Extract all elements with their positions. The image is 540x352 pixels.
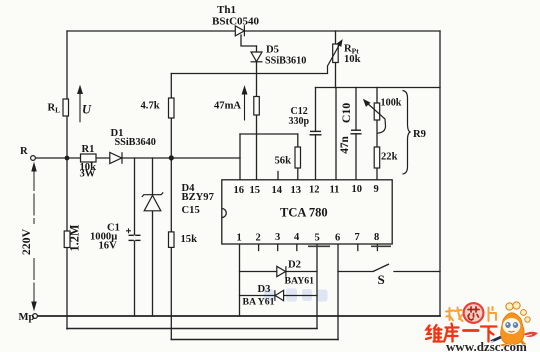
watermark zhao char (446, 308, 463, 322)
wire thyristor gate (241, 35, 257, 46)
svg-text:U: U (82, 103, 92, 117)
svg-text:SSiB3610: SSiB3610 (265, 56, 306, 67)
wire right rail (439, 31, 441, 316)
diode D5 (251, 52, 263, 62)
resistor 15k (169, 232, 175, 248)
svg-text:BA Y61: BA Y61 (243, 297, 275, 308)
svg-text:Th1: Th1 (217, 4, 236, 16)
wire pin11 column (335, 88, 337, 181)
svg-text:12: 12 (309, 185, 320, 196)
wire 4.7k column (170, 74, 172, 340)
brace R9 (403, 91, 411, 175)
resistor 1.2M (64, 231, 70, 248)
watermark ghost blue mark (264, 289, 328, 302)
wire row y73 (171, 73, 327, 75)
svg-text:15k: 15k (181, 234, 198, 245)
wire D2 row (240, 271, 318, 273)
svg-text:R1: R1 (82, 144, 95, 155)
svg-text:3: 3 (275, 232, 280, 243)
svg-text:R9: R9 (413, 129, 426, 140)
watermark weiku chars (426, 324, 497, 342)
wire pin4 stub (296, 244, 298, 251)
terminal R (31, 156, 36, 161)
wire pin6 column (337, 244, 339, 340)
svg-text:4.7k: 4.7k (141, 101, 160, 112)
diode D1 (110, 152, 122, 164)
svg-text:4: 4 (294, 232, 300, 243)
potentiometer 100k body (374, 103, 380, 120)
wire pin3 stub (277, 244, 279, 251)
potentiometer RPt wiper arrow (328, 41, 342, 74)
diode D3 (275, 290, 284, 301)
capacitor C12 (310, 131, 322, 134)
wire bus2 bottom (67, 328, 317, 330)
wire D5 pin15 column (256, 46, 258, 180)
node junction 4.7k-Ro (169, 155, 174, 160)
svg-text:15: 15 (250, 185, 261, 196)
svg-text:3W: 3W (80, 169, 96, 180)
node junction RL-Ro (65, 156, 70, 161)
svg-text:C15: C15 (182, 205, 200, 216)
wire bus3 bottom (171, 339, 338, 341)
IC U1 TCA780 box (222, 180, 392, 244)
wire D4 column (152, 158, 154, 316)
switch S blade (373, 264, 389, 272)
wire C10 column (355, 88, 357, 131)
resistor 22k (374, 147, 380, 168)
svg-text:D3: D3 (258, 284, 271, 295)
diode D2 (277, 266, 286, 277)
svg-text:www.dzsc.com: www.dzsc.com (446, 339, 527, 352)
svg-text:220V: 220V (19, 228, 33, 255)
svg-text:8: 8 (374, 232, 379, 243)
svg-text:BAY61: BAY61 (285, 276, 315, 287)
wire pin1 column (239, 244, 241, 316)
potentiometer 100k wiper arrow (364, 100, 386, 133)
svg-text:Mp: Mp (19, 312, 35, 323)
wire top rail (67, 30, 440, 32)
wire 56k column (297, 134, 299, 180)
wire C12 column (315, 88, 317, 132)
wire C1 column (134, 158, 136, 316)
svg-text:16: 16 (234, 185, 245, 196)
wire Mp bus (38, 315, 441, 317)
wire pin5 column (316, 244, 318, 329)
watermark mascot (490, 302, 538, 351)
wire pin8 stub (376, 244, 378, 251)
svg-text:47mA: 47mA (214, 101, 241, 112)
wire RPt column (335, 31, 337, 88)
dimension line 220V (32, 164, 36, 310)
svg-text:56k: 56k (275, 156, 292, 167)
wire Ro row (36, 157, 241, 159)
zener diode D4 (142, 192, 163, 210)
svg-text:D5: D5 (266, 45, 279, 56)
svg-text:SSiB3640: SSiB3640 (115, 137, 156, 148)
svg-text:100k: 100k (381, 98, 402, 109)
capacitor C10 (351, 130, 362, 134)
svg-text:C10: C10 (339, 103, 353, 123)
wire left column (66, 31, 68, 329)
arrow 47mA (242, 87, 246, 121)
svg-text:BStC0540: BStC0540 (212, 16, 260, 28)
wire pin7 stub (357, 244, 359, 251)
svg-text:9: 9 (374, 184, 379, 195)
svg-text:14: 14 (272, 185, 283, 196)
IC box bottom scan artifact bars (308, 245, 391, 247)
svg-text:13: 13 (291, 185, 302, 196)
svg-text:1: 1 (237, 233, 242, 244)
resistor 56k (295, 147, 301, 168)
arrow U (78, 87, 82, 123)
svg-text:47n: 47n (339, 136, 351, 154)
resistor 4.7k (169, 98, 175, 118)
terminal Mp (33, 314, 38, 319)
svg-text:10k: 10k (344, 54, 361, 65)
svg-text:22k: 22k (381, 152, 398, 163)
resistor RL (63, 99, 69, 116)
svg-text:6: 6 (335, 233, 340, 244)
svg-text:D2: D2 (288, 260, 301, 271)
watermark xin char (468, 307, 479, 320)
svg-text:16V: 16V (99, 241, 118, 252)
resistor R1 (81, 154, 97, 162)
wire pin16 column (239, 134, 241, 180)
watermark pian char (489, 307, 497, 321)
wire pin2 stub (258, 244, 260, 251)
svg-text:1.2M: 1.2M (68, 224, 82, 251)
thyristor Th1 (235, 25, 244, 36)
watermark dzsc logo (426, 302, 538, 352)
svg-text:5: 5 (315, 233, 320, 244)
resistor 47mA (254, 97, 259, 116)
potentiometer RPt body (333, 44, 339, 63)
watermark magnifier circle (463, 302, 485, 324)
wire row y134 (240, 133, 298, 135)
svg-text:7: 7 (355, 232, 360, 243)
wire pin9 column (376, 88, 378, 181)
wire switch S row (338, 271, 373, 273)
svg-text:10: 10 (352, 184, 363, 195)
svg-text:BZY97: BZY97 (182, 192, 215, 203)
wire pin14 stub (277, 172, 279, 181)
svg-text:2: 2 (256, 233, 261, 244)
svg-text:330p: 330p (289, 116, 310, 127)
wire D3 row (240, 295, 318, 297)
wire mid bus y87 (316, 87, 441, 89)
svg-text:11: 11 (330, 185, 340, 196)
svg-text:S: S (378, 272, 385, 287)
capacitor C1 (126, 228, 141, 240)
svg-text:TCA 780: TCA 780 (280, 206, 328, 220)
svg-text:R: R (20, 146, 28, 157)
